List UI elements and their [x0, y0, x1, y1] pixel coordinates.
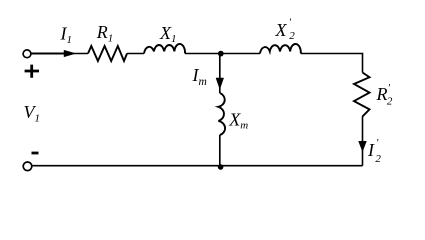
svg-text:′: ′ — [376, 137, 379, 149]
svg-text:Xm: Xm — [228, 109, 248, 131]
svg-text:X1: X1 — [159, 23, 177, 45]
node junction bottom — [218, 164, 224, 170]
wire Xm to bottom — [219, 135, 221, 166]
svg-text:2: 2 — [375, 153, 381, 165]
resistor R2' — [354, 73, 370, 117]
terminal top-left — [23, 50, 31, 58]
wire node down (Im branch) — [219, 54, 221, 94]
wire X2' to corner — [301, 54, 363, 73]
svg-text:I1: I1 — [60, 24, 73, 46]
svg-text:R: R — [376, 84, 388, 104]
svg-text:R1: R1 — [96, 22, 114, 44]
node junction top — [218, 51, 224, 57]
svg-text:′: ′ — [388, 82, 391, 94]
bottom wire — [32, 165, 363, 167]
svg-text:2: 2 — [289, 30, 295, 42]
inductor X2' — [260, 44, 301, 54]
inductor X1 — [144, 44, 185, 54]
plus sign — [25, 65, 39, 78]
current arrow I2' — [359, 141, 367, 151]
terminal bottom-left — [23, 162, 32, 171]
inductor Xm — [218, 93, 225, 135]
svg-text:I: I — [367, 140, 375, 160]
svg-text:Im: Im — [192, 65, 207, 88]
wire X1 to X2' — [185, 53, 260, 55]
current arrow Im — [216, 78, 224, 89]
svg-text:′: ′ — [289, 17, 292, 29]
svg-text:V1: V1 — [24, 102, 41, 125]
wire R1 to X1 — [127, 53, 144, 55]
minus sign — [32, 152, 39, 155]
wire R2' down to bottom — [362, 116, 364, 166]
wire top-left — [31, 53, 88, 55]
resistor R1 — [88, 46, 127, 61]
svg-text:X: X — [275, 20, 288, 40]
current arrow I1 — [31, 50, 76, 57]
svg-text:2: 2 — [387, 95, 393, 107]
